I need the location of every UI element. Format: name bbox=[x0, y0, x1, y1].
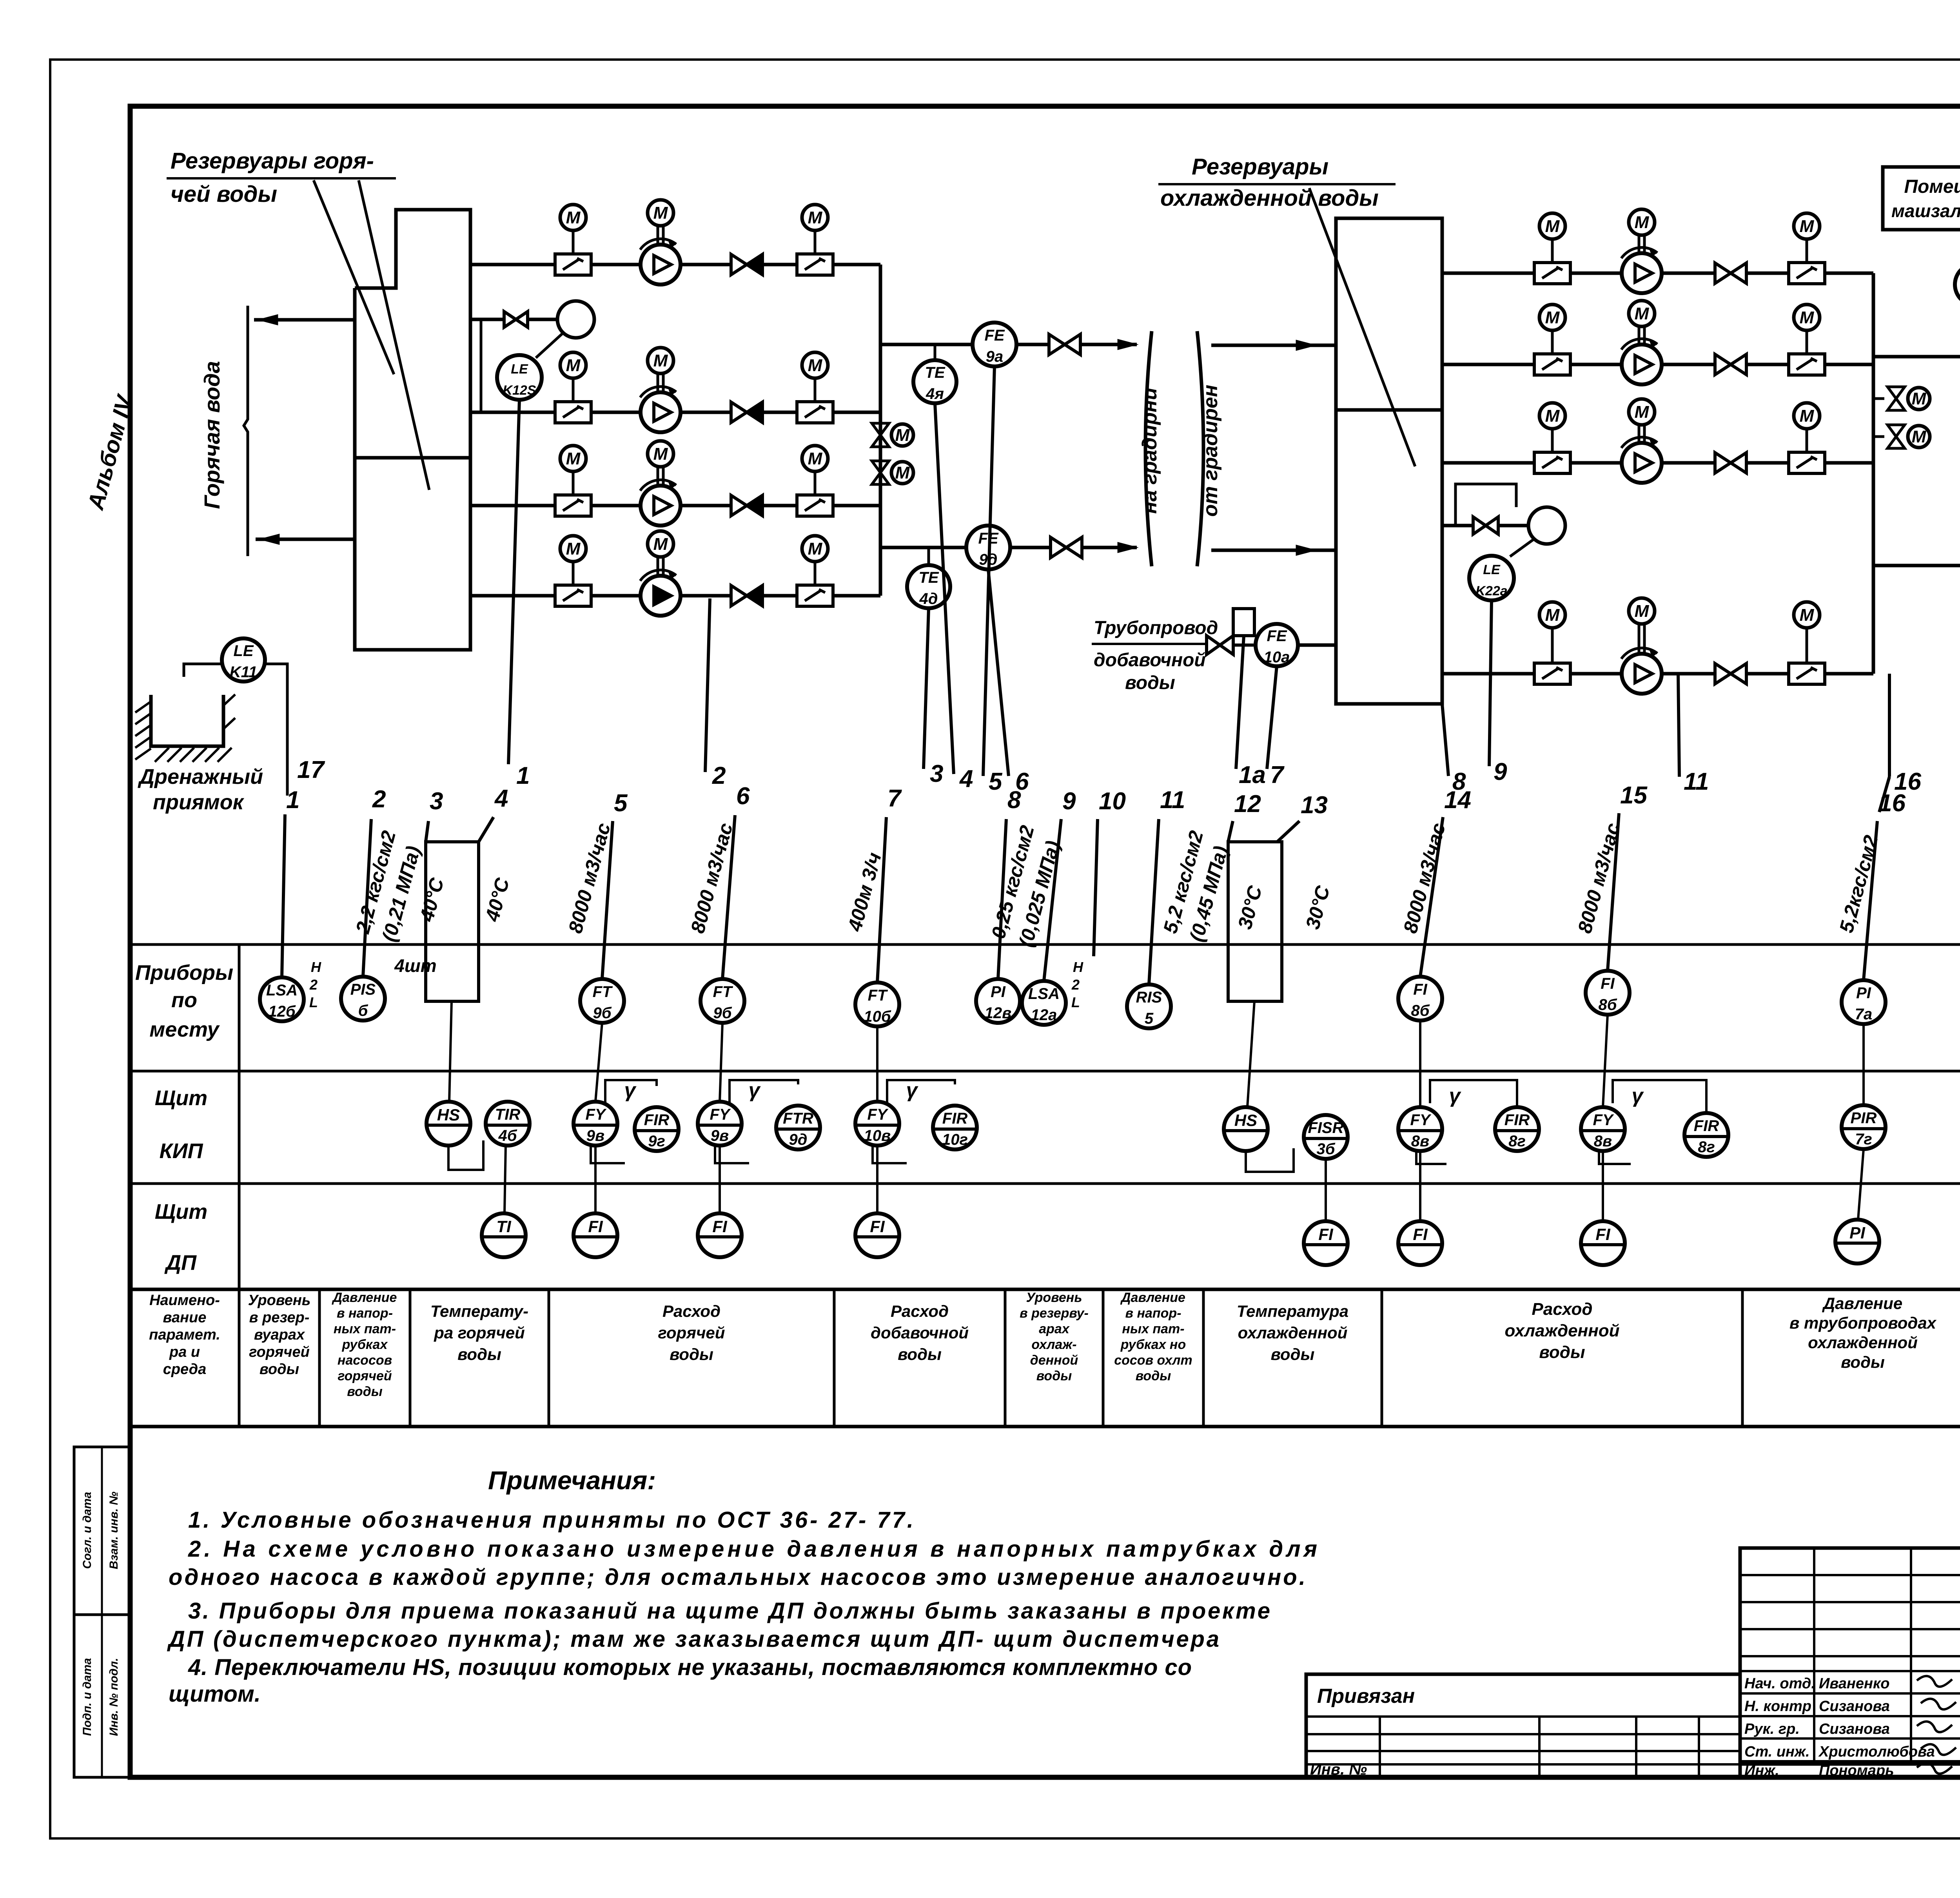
svg-text:FI: FI bbox=[588, 1217, 603, 1236]
svg-text:2: 2 bbox=[309, 977, 318, 993]
svg-text:M: M bbox=[1635, 402, 1650, 422]
svg-text:M: M bbox=[808, 356, 823, 375]
svg-text:12б: 12б bbox=[268, 1003, 296, 1020]
svg-text:8г: 8г bbox=[1508, 1133, 1526, 1150]
svg-text:Трубопровод: Трубопровод bbox=[1094, 618, 1218, 638]
svg-text:Щит: Щит bbox=[155, 1086, 207, 1110]
svg-text:L: L bbox=[309, 994, 318, 1010]
svg-text:Инж.: Инж. bbox=[1744, 1762, 1779, 1779]
svg-text:M: M bbox=[1800, 308, 1815, 327]
svg-text:13: 13 bbox=[1301, 792, 1328, 819]
svg-text:воды: воды bbox=[898, 1345, 942, 1363]
svg-text:FY: FY bbox=[710, 1106, 731, 1123]
svg-text:HS: HS bbox=[437, 1106, 460, 1124]
svg-text:4: 4 bbox=[494, 785, 508, 812]
svg-text:охлажденной: охлажденной bbox=[1504, 1321, 1619, 1340]
svg-text:M: M bbox=[1800, 605, 1815, 625]
svg-text:горячей: горячей bbox=[338, 1369, 392, 1383]
svg-text:L: L bbox=[1071, 994, 1080, 1010]
svg-text:ных пат-: ных пат- bbox=[334, 1322, 396, 1336]
svg-text:Сизанова: Сизанова bbox=[1819, 1721, 1890, 1737]
svg-text:Наимено-: Наимено- bbox=[149, 1292, 220, 1309]
svg-text:Инв. №: Инв. № bbox=[1310, 1761, 1367, 1778]
svg-text:в напор-: в напор- bbox=[1125, 1306, 1181, 1321]
svg-text:Рук. гр.: Рук. гр. bbox=[1744, 1721, 1800, 1737]
svg-text:10а: 10а bbox=[1264, 649, 1290, 666]
svg-text:9д: 9д bbox=[789, 1131, 808, 1148]
svg-text:M: M bbox=[1635, 304, 1650, 323]
svg-text:Ст. инж.: Ст. инж. bbox=[1744, 1744, 1810, 1760]
svg-text:2: 2 bbox=[712, 762, 726, 789]
svg-text:M: M bbox=[895, 426, 910, 445]
svg-text:от градирен: от градирен bbox=[1199, 385, 1222, 517]
svg-text:вание: вание bbox=[163, 1309, 207, 1326]
svg-text:FI: FI bbox=[1601, 975, 1615, 992]
svg-text:Привязан: Привязан bbox=[1317, 1685, 1415, 1708]
svg-text:Помещения: Помещения bbox=[1904, 176, 1960, 197]
svg-text:FIR: FIR bbox=[1504, 1111, 1530, 1129]
svg-text:Взам. инв. №: Взам. инв. № bbox=[107, 1492, 120, 1569]
svg-text:M: M bbox=[653, 444, 668, 464]
svg-text:воды: воды bbox=[1841, 1353, 1885, 1371]
svg-text:γ: γ bbox=[906, 1079, 919, 1102]
svg-text:воды: воды bbox=[457, 1345, 501, 1363]
svg-text:M: M bbox=[808, 208, 823, 227]
svg-text:TIR: TIR bbox=[495, 1106, 521, 1123]
svg-text:M: M bbox=[1635, 213, 1650, 232]
svg-text:17: 17 bbox=[297, 756, 325, 783]
svg-text:охлажденной: охлажденной bbox=[1238, 1323, 1348, 1342]
svg-text:FY: FY bbox=[585, 1106, 606, 1123]
svg-text:Н: Н bbox=[311, 959, 321, 975]
svg-text:M: M bbox=[1545, 406, 1560, 426]
svg-text:4. Переключатели HS, позици: 4. Переключатели HS, позиции которых не … bbox=[188, 1655, 1192, 1680]
svg-text:Резервуары: Резервуары bbox=[1192, 154, 1328, 179]
svg-text:охлажденной: охлажденной bbox=[1808, 1333, 1918, 1352]
svg-text:M: M bbox=[1912, 427, 1927, 446]
svg-text:FIR: FIR bbox=[644, 1111, 670, 1129]
svg-text:машзала и КТП: машзала и КТП bbox=[1891, 201, 1960, 221]
svg-text:PI: PI bbox=[1856, 984, 1871, 1002]
svg-text:M: M bbox=[566, 449, 581, 468]
svg-text:воды: воды bbox=[347, 1384, 383, 1399]
svg-text:FT: FT bbox=[713, 983, 733, 1001]
svg-text:LSA: LSA bbox=[266, 982, 298, 999]
svg-text:9б: 9б bbox=[713, 1004, 732, 1022]
svg-text:8в: 8в bbox=[1411, 1133, 1429, 1150]
svg-text:ДП: ДП bbox=[164, 1251, 197, 1274]
svg-text:Инв. № подл.: Инв. № подл. bbox=[107, 1658, 120, 1736]
svg-text:M: M bbox=[1800, 217, 1815, 236]
svg-text:12а: 12а bbox=[1031, 1006, 1057, 1024]
svg-text:M: M bbox=[653, 351, 668, 370]
svg-text:8г: 8г bbox=[1698, 1138, 1715, 1156]
svg-text:воды: воды bbox=[1539, 1343, 1585, 1362]
svg-text:FY: FY bbox=[1593, 1111, 1614, 1129]
svg-text:TI: TI bbox=[496, 1217, 512, 1236]
svg-text:HS: HS bbox=[1234, 1111, 1257, 1129]
svg-text:M: M bbox=[566, 208, 581, 227]
svg-text:в резер-: в резер- bbox=[249, 1309, 310, 1326]
svg-text:M: M bbox=[1912, 389, 1927, 408]
svg-text:M: M bbox=[1800, 406, 1815, 426]
svg-text:воды: воды bbox=[1136, 1369, 1171, 1383]
svg-text:FI: FI bbox=[870, 1217, 885, 1236]
svg-text:чей воды: чей воды bbox=[171, 181, 277, 207]
svg-text:в резерву-: в резерву- bbox=[1020, 1306, 1089, 1321]
svg-text:RIS: RIS bbox=[1136, 989, 1162, 1006]
svg-text:16: 16 bbox=[1878, 790, 1906, 817]
svg-text:1. Условные обозначения при: 1. Условные обозначения приняты по ОСТ 3… bbox=[188, 1507, 913, 1533]
svg-text:Согл. и дата: Согл. и дата bbox=[81, 1492, 94, 1569]
svg-text:12в: 12в bbox=[985, 1004, 1012, 1022]
svg-text:9в: 9в bbox=[586, 1127, 604, 1144]
svg-text:FI: FI bbox=[1413, 981, 1427, 998]
svg-text:ра и: ра и bbox=[169, 1344, 200, 1360]
svg-text:FE: FE bbox=[1267, 627, 1287, 645]
svg-text:Подп. и дата: Подп. и дата bbox=[81, 1658, 94, 1736]
svg-text:воды: воды bbox=[260, 1361, 299, 1378]
svg-text:8б: 8б bbox=[1411, 1002, 1430, 1019]
svg-text:5: 5 bbox=[989, 768, 1003, 795]
svg-text:парамет.: парамет. bbox=[149, 1327, 220, 1343]
svg-text:4д: 4д bbox=[919, 590, 938, 607]
svg-text:LE: LE bbox=[511, 362, 528, 377]
svg-text:ных пат-: ных пат- bbox=[1122, 1322, 1184, 1336]
svg-text:среда: среда bbox=[163, 1361, 207, 1378]
svg-text:FI: FI bbox=[1413, 1225, 1428, 1244]
svg-text:КИП: КИП bbox=[160, 1139, 203, 1163]
svg-text:1: 1 bbox=[286, 787, 299, 814]
svg-text:Уровень: Уровень bbox=[1026, 1290, 1082, 1305]
svg-text:FI: FI bbox=[1595, 1225, 1611, 1244]
svg-text:3: 3 bbox=[430, 788, 443, 815]
svg-text:Давление: Давление bbox=[1822, 1294, 1902, 1312]
svg-text:Горячая вода: Горячая вода bbox=[200, 361, 224, 509]
svg-text:5: 5 bbox=[1145, 1010, 1154, 1027]
svg-text:TE: TE bbox=[918, 569, 939, 586]
svg-text:щитом.: щитом. bbox=[169, 1681, 261, 1707]
svg-text:приямок: приямок bbox=[153, 790, 245, 814]
svg-text:M: M bbox=[1545, 308, 1560, 327]
svg-text:FIR: FIR bbox=[1694, 1117, 1719, 1135]
svg-text:Приборы: Приборы bbox=[135, 961, 233, 984]
svg-text:12: 12 bbox=[1234, 790, 1261, 818]
svg-text:10: 10 bbox=[1099, 788, 1126, 815]
svg-text:PIR: PIR bbox=[1851, 1109, 1877, 1127]
svg-text:FI: FI bbox=[1318, 1225, 1334, 1244]
svg-text:7: 7 bbox=[1270, 761, 1285, 789]
svg-text:9в: 9в bbox=[711, 1127, 729, 1144]
svg-text:Щит: Щит bbox=[155, 1200, 207, 1224]
svg-text:FT: FT bbox=[868, 987, 888, 1004]
svg-text:M: M bbox=[653, 535, 668, 554]
svg-text:10в: 10в bbox=[864, 1127, 891, 1144]
svg-text:FTR: FTR bbox=[783, 1110, 813, 1127]
svg-text:ра горячей: ра горячей bbox=[434, 1323, 525, 1342]
svg-text:добавочной: добавочной bbox=[1094, 650, 1206, 671]
svg-text:FY: FY bbox=[1410, 1111, 1431, 1129]
svg-text:FT: FT bbox=[593, 983, 613, 1001]
svg-text:LE: LE bbox=[1483, 562, 1501, 577]
svg-text:11: 11 bbox=[1160, 787, 1185, 814]
svg-text:Христолюбова: Христолюбова bbox=[1818, 1744, 1935, 1760]
svg-text:7г: 7г bbox=[1855, 1131, 1872, 1148]
svg-text:охлажденной воды: охлажденной воды bbox=[1160, 185, 1379, 211]
svg-text:Пономарь: Пономарь bbox=[1819, 1762, 1894, 1779]
svg-text:Температу-: Температу- bbox=[430, 1302, 528, 1320]
svg-text:4шт: 4шт bbox=[394, 955, 436, 976]
svg-text:PIS: PIS bbox=[350, 981, 376, 998]
svg-text:PI: PI bbox=[991, 983, 1006, 1001]
svg-text:воды: воды bbox=[670, 1345, 713, 1363]
svg-text:Примечания:: Примечания: bbox=[488, 1466, 656, 1495]
svg-text:рубках: рубках bbox=[342, 1337, 388, 1352]
svg-text:FI: FI bbox=[712, 1217, 728, 1236]
svg-text:месту: месту bbox=[149, 1018, 220, 1041]
svg-text:7: 7 bbox=[887, 785, 902, 812]
svg-text:Уровень: Уровень bbox=[248, 1292, 311, 1309]
svg-text:8: 8 bbox=[1007, 787, 1021, 814]
svg-text:горячей: горячей bbox=[658, 1323, 725, 1342]
svg-text:4: 4 bbox=[959, 765, 973, 792]
svg-text:9: 9 bbox=[1062, 788, 1076, 815]
svg-text:PI: PI bbox=[1849, 1224, 1866, 1242]
svg-text:FIR: FIR bbox=[942, 1110, 968, 1127]
svg-text:M: M bbox=[1635, 602, 1650, 621]
svg-text:11: 11 bbox=[1684, 768, 1709, 795]
svg-text:в напор-: в напор- bbox=[337, 1306, 393, 1321]
svg-text:добавочной: добавочной bbox=[871, 1323, 969, 1342]
svg-text:1а: 1а bbox=[1239, 761, 1266, 789]
svg-text:по: по bbox=[171, 988, 197, 1012]
svg-text:воды: воды bbox=[1036, 1369, 1072, 1383]
svg-text:K22а: K22а bbox=[1475, 584, 1507, 598]
svg-text:Сизанова: Сизанова bbox=[1819, 1698, 1890, 1715]
svg-text:FISR: FISR bbox=[1308, 1119, 1343, 1137]
svg-text:3б: 3б bbox=[1316, 1140, 1335, 1158]
svg-text:9: 9 bbox=[1494, 758, 1507, 785]
svg-text:2: 2 bbox=[372, 786, 386, 813]
svg-text:M: M bbox=[1545, 217, 1560, 236]
svg-text:на градирни: на градирни bbox=[1138, 388, 1161, 514]
svg-text:9а: 9а bbox=[986, 348, 1004, 365]
svg-text:Расход: Расход bbox=[1532, 1300, 1592, 1319]
svg-text:3. Приборы для приема пока: 3. Приборы для приема показаний на щите … bbox=[188, 1598, 1270, 1624]
svg-text:γ: γ bbox=[624, 1079, 637, 1102]
svg-text:охлаж-: охлаж- bbox=[1031, 1337, 1076, 1352]
svg-text:в трубопроводах: в трубопроводах bbox=[1789, 1314, 1937, 1332]
svg-text:LE: LE bbox=[233, 642, 254, 660]
svg-text:2: 2 bbox=[1071, 977, 1080, 993]
svg-text:10г: 10г bbox=[942, 1131, 968, 1148]
svg-text:7а: 7а bbox=[1855, 1006, 1873, 1023]
svg-text:M: M bbox=[808, 539, 823, 558]
svg-text:Резервуары горя-: Резервуары горя- bbox=[171, 148, 374, 174]
svg-text:Иваненко: Иваненко bbox=[1819, 1675, 1889, 1692]
svg-text:M: M bbox=[653, 203, 668, 223]
svg-text:M: M bbox=[808, 449, 823, 468]
svg-text:Дренажный: Дренажный bbox=[138, 765, 263, 789]
svg-text:γ: γ bbox=[1449, 1084, 1462, 1107]
svg-text:насосов: насосов bbox=[338, 1353, 392, 1368]
svg-text:Расход: Расход bbox=[891, 1302, 949, 1320]
svg-text:Расход: Расход bbox=[662, 1302, 720, 1320]
svg-text:Давление: Давление bbox=[332, 1290, 397, 1305]
svg-text:9г: 9г bbox=[648, 1133, 665, 1150]
svg-text:9б: 9б bbox=[593, 1004, 612, 1022]
svg-text:б: б bbox=[358, 1002, 368, 1019]
svg-text:сосов охлт: сосов охлт bbox=[1114, 1353, 1192, 1368]
svg-text:M: M bbox=[566, 356, 581, 375]
svg-text:LSA: LSA bbox=[1028, 985, 1060, 1002]
svg-text:6: 6 bbox=[736, 783, 750, 810]
svg-text:14: 14 bbox=[1444, 787, 1471, 814]
svg-text:8б: 8б bbox=[1598, 996, 1617, 1013]
svg-text:горячей: горячей bbox=[249, 1344, 310, 1360]
svg-text:γ: γ bbox=[749, 1079, 761, 1102]
svg-text:Температура: Температура bbox=[1237, 1302, 1348, 1320]
svg-text:вуарах: вуарах bbox=[254, 1327, 305, 1343]
svg-text:M: M bbox=[1545, 605, 1560, 625]
svg-text:K11: K11 bbox=[230, 663, 257, 681]
svg-text:Давление: Давление bbox=[1120, 1290, 1185, 1305]
svg-text:воды: воды bbox=[1271, 1345, 1315, 1363]
svg-text:5: 5 bbox=[614, 790, 628, 817]
svg-text:Нач. отд.: Нач. отд. bbox=[1744, 1675, 1815, 1692]
svg-text:4я: 4я bbox=[926, 385, 944, 402]
svg-text:10б: 10б bbox=[864, 1008, 891, 1025]
svg-text:денной: денной bbox=[1030, 1353, 1078, 1368]
svg-text:M: M bbox=[566, 539, 581, 558]
svg-text:γ: γ bbox=[1632, 1084, 1644, 1107]
svg-text:1: 1 bbox=[516, 762, 530, 789]
svg-text:рубках но: рубках но bbox=[1120, 1337, 1186, 1352]
svg-text:арах: арах bbox=[1039, 1322, 1070, 1336]
svg-text:TE: TE bbox=[925, 364, 945, 381]
svg-text:K12S: K12S bbox=[503, 383, 536, 398]
svg-text:Н. контр: Н. контр bbox=[1744, 1698, 1811, 1715]
svg-text:воды: воды bbox=[1125, 673, 1175, 693]
svg-text:FY: FY bbox=[867, 1106, 888, 1123]
svg-text:15: 15 bbox=[1620, 782, 1648, 809]
svg-text:FE: FE bbox=[984, 327, 1005, 344]
svg-text:Н: Н bbox=[1073, 959, 1083, 975]
svg-text:3: 3 bbox=[930, 760, 943, 787]
svg-text:4б: 4б bbox=[498, 1127, 517, 1144]
svg-text:M: M bbox=[895, 463, 910, 482]
svg-text:2. На схеме условно показа: 2. На схеме условно показано измерение д… bbox=[188, 1536, 1317, 1562]
svg-text:8в: 8в bbox=[1594, 1133, 1612, 1150]
